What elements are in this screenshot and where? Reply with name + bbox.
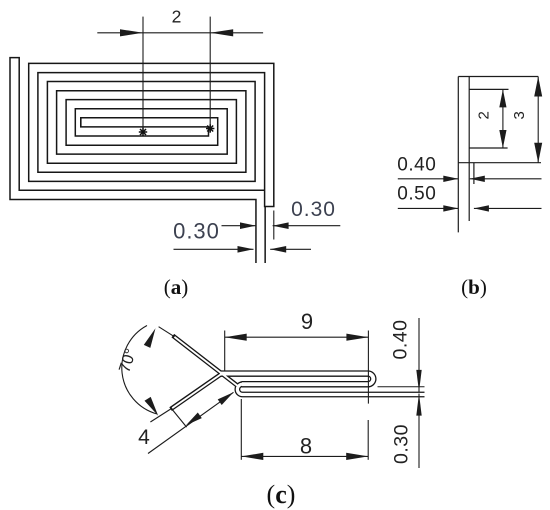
- svg-text:2: 2: [476, 111, 493, 119]
- svg-text:0.40: 0.40: [397, 155, 436, 176]
- svg-text:0.30: 0.30: [173, 219, 220, 244]
- svg-text:9: 9: [301, 309, 313, 334]
- svg-text:2: 2: [172, 7, 182, 27]
- svg-text:3: 3: [511, 111, 528, 119]
- svg-text:(c): (c): [267, 480, 296, 509]
- svg-text:0.30: 0.30: [291, 198, 336, 221]
- svg-text:0.50: 0.50: [397, 184, 436, 205]
- svg-text:4: 4: [138, 426, 150, 449]
- svg-text:(a): (a): [164, 275, 189, 299]
- svg-text:(b): (b): [461, 275, 487, 299]
- svg-text:0.30: 0.30: [391, 424, 413, 464]
- svg-text:8: 8: [300, 433, 312, 458]
- svg-text:0.40: 0.40: [390, 320, 412, 360]
